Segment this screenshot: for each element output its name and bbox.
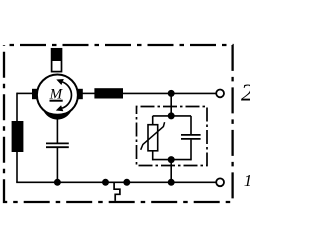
svg-text:2: 2	[241, 81, 250, 107]
svg-text:1: 1	[244, 171, 250, 190]
